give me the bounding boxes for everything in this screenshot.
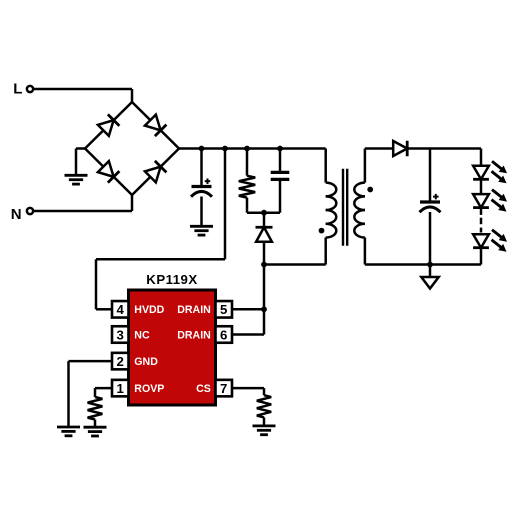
svg-text:6: 6 xyxy=(220,327,227,342)
wire ROVP resistor to ground xyxy=(94,420,97,428)
capacitor C1 bulk electrolytic xyxy=(191,178,212,196)
wire GND pin2 to ground xyxy=(69,361,113,427)
wire C2 bottom lead xyxy=(429,212,432,265)
wire snubber R top lead xyxy=(246,149,249,176)
svg-text:CS: CS xyxy=(196,383,211,395)
diode D1 bridge top-left xyxy=(98,114,119,135)
wire DRAIN pin6 xyxy=(232,333,264,336)
node dot output ground junction xyxy=(427,262,433,268)
pin label GND xyxy=(134,356,158,368)
diode D2 bridge top-right xyxy=(145,115,166,136)
pin label NC xyxy=(134,329,150,341)
pin label CS xyxy=(196,383,211,395)
diode clamp xyxy=(256,227,273,242)
wire bridge side left-top xyxy=(85,102,132,149)
wire C2 top lead xyxy=(429,149,432,202)
node dot rail-snubberC xyxy=(277,146,283,152)
svg-text:HVDD: HVDD xyxy=(134,304,164,316)
wire snubber bottom join xyxy=(247,211,280,214)
pin label DRAIN (6) xyxy=(177,329,211,341)
node dot primary polarity xyxy=(319,228,325,234)
wire LED1-LED2 xyxy=(480,179,483,194)
wire bridge negative to ground xyxy=(76,149,85,176)
ground (C1) xyxy=(190,226,213,235)
pin 6 box xyxy=(216,326,233,343)
wire clamp diode top lead xyxy=(263,213,266,227)
wire C1 bottom lead xyxy=(200,197,203,227)
diode output rectifier xyxy=(393,141,407,157)
wire output ground lead xyxy=(429,265,432,278)
wire drain junction down to DRAIN pins xyxy=(263,265,266,335)
ground (CS) xyxy=(253,426,276,435)
transformer T1 core xyxy=(343,169,347,246)
LED D7 xyxy=(473,230,507,252)
ground (ROVP) xyxy=(84,427,107,436)
wire bridge side top-right xyxy=(132,102,179,149)
svg-text:1: 1 xyxy=(117,381,124,396)
terminal L xyxy=(13,81,33,98)
svg-text:KP119X: KP119X xyxy=(146,272,197,287)
resistor CS xyxy=(257,395,271,417)
wire ROVP pin1 lead xyxy=(95,388,112,397)
wire snubber R bottom lead xyxy=(246,198,249,213)
wire output top corner down xyxy=(480,149,483,167)
wire secondary bottom lead xyxy=(364,238,367,265)
pin 5 box xyxy=(216,301,233,318)
wire CS resistor to ground xyxy=(263,417,266,425)
pin label ROVP xyxy=(134,383,164,395)
wire primary top lead xyxy=(324,149,327,183)
wire CS pin7 lead xyxy=(232,388,264,395)
LED D5 xyxy=(473,161,507,183)
pin label DRAIN (5) xyxy=(177,304,211,316)
node dot snubber bottom xyxy=(261,210,267,216)
wire primary bottom lead xyxy=(324,238,327,265)
pin 3 box xyxy=(112,326,129,343)
node dot drain junction xyxy=(261,262,267,268)
wire C1 top lead xyxy=(200,149,203,186)
svg-text:N: N xyxy=(11,206,22,223)
svg-text:DRAIN: DRAIN xyxy=(177,329,211,341)
ground (bridge negative) xyxy=(65,175,88,184)
pin 2 box xyxy=(112,353,129,370)
ground (output, triangle) xyxy=(421,277,438,289)
pin 7 box xyxy=(216,380,233,397)
wire secondary top lead xyxy=(364,149,367,183)
svg-text:NC: NC xyxy=(134,329,150,341)
wire secondary bottom rail xyxy=(365,263,481,266)
wire L to bridge top xyxy=(34,89,132,103)
wire snubber C top lead xyxy=(279,149,282,173)
wire dashed (more LEDs) xyxy=(480,218,483,233)
LED D6 xyxy=(473,190,507,212)
resistor snubber xyxy=(239,176,255,198)
transformer T1 primary winding xyxy=(326,183,337,238)
node dot rail-snubberR xyxy=(244,146,250,152)
wire rectified HV rail xyxy=(179,147,326,150)
svg-text:5: 5 xyxy=(220,302,227,317)
svg-text:L: L xyxy=(13,81,22,98)
transformer T1 secondary winding xyxy=(354,183,365,238)
wire secondary top to output diode xyxy=(365,147,393,150)
wire LED3 to bottom rail xyxy=(480,248,483,265)
pin 1 box xyxy=(112,380,129,397)
wire DRAIN pin5 xyxy=(232,308,264,311)
resistor ROVP xyxy=(88,397,103,420)
wire drain junction to primary bottom xyxy=(264,263,326,266)
svg-text:7: 7 xyxy=(220,381,227,396)
svg-text:2: 2 xyxy=(117,354,124,369)
wire bridge side bottom-right xyxy=(132,149,179,196)
pin label HVDD xyxy=(134,304,164,316)
label KP119X xyxy=(146,272,197,287)
svg-text:3: 3 xyxy=(117,327,124,342)
node dot secondary polarity xyxy=(367,187,373,193)
ground (pin2 GND) xyxy=(57,427,80,436)
diode D4 bridge bottom-right xyxy=(145,161,166,182)
wire snubber C bottom lead xyxy=(279,179,282,212)
node dot rail-HVDD xyxy=(222,146,228,152)
pin 4 box xyxy=(112,301,129,318)
svg-text:GND: GND xyxy=(134,356,158,368)
svg-text:4: 4 xyxy=(117,302,125,317)
capacitor C2 output xyxy=(420,194,441,212)
node dot pin5 junction xyxy=(261,306,267,312)
diode D3 bridge bottom-left xyxy=(98,161,119,182)
terminal N xyxy=(11,206,33,223)
wire output diode to LED string top xyxy=(407,147,481,150)
wire HVDD supply xyxy=(96,149,225,310)
wire bridge side left-bottom xyxy=(85,149,132,196)
capacitor snubber xyxy=(271,172,290,179)
svg-text:DRAIN: DRAIN xyxy=(177,304,211,316)
wire clamp diode bottom lead xyxy=(263,242,266,265)
IC U1 KP119X body xyxy=(129,290,216,405)
wire LED2-dashed xyxy=(480,208,483,215)
wire N to bridge bottom xyxy=(34,194,132,211)
node dot rail-C1 xyxy=(199,146,205,152)
svg-text:ROVP: ROVP xyxy=(134,383,164,395)
